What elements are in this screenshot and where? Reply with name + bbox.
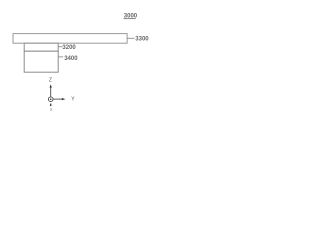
leader line to 3400 [58,56,63,58]
Y axis line [53,98,62,100]
axis origin circle (X out of plane) [48,97,53,102]
leader line to 3200 [58,46,62,48]
svg-text:Y: Y [71,96,75,102]
Z axis arrowhead [50,84,52,87]
svg-text:3300: 3300 [135,36,149,42]
Y axis arrowhead [62,98,66,100]
svg-text:X: X [50,107,53,112]
svg-text:3200: 3200 [62,45,76,51]
Z axis line [50,87,52,96]
underline of 3000 [124,18,136,20]
component 3400 (lower box) [24,51,58,72]
adhesive layer 3200 (thin box under panel) [24,43,58,51]
display panel 3300 (long bar) [13,34,127,44]
X axis tick below circle [50,104,52,107]
axis origin dot [50,98,52,100]
leader line to 3300 [127,37,134,39]
svg-text:Z: Z [49,78,52,84]
svg-text:3400: 3400 [64,56,78,62]
